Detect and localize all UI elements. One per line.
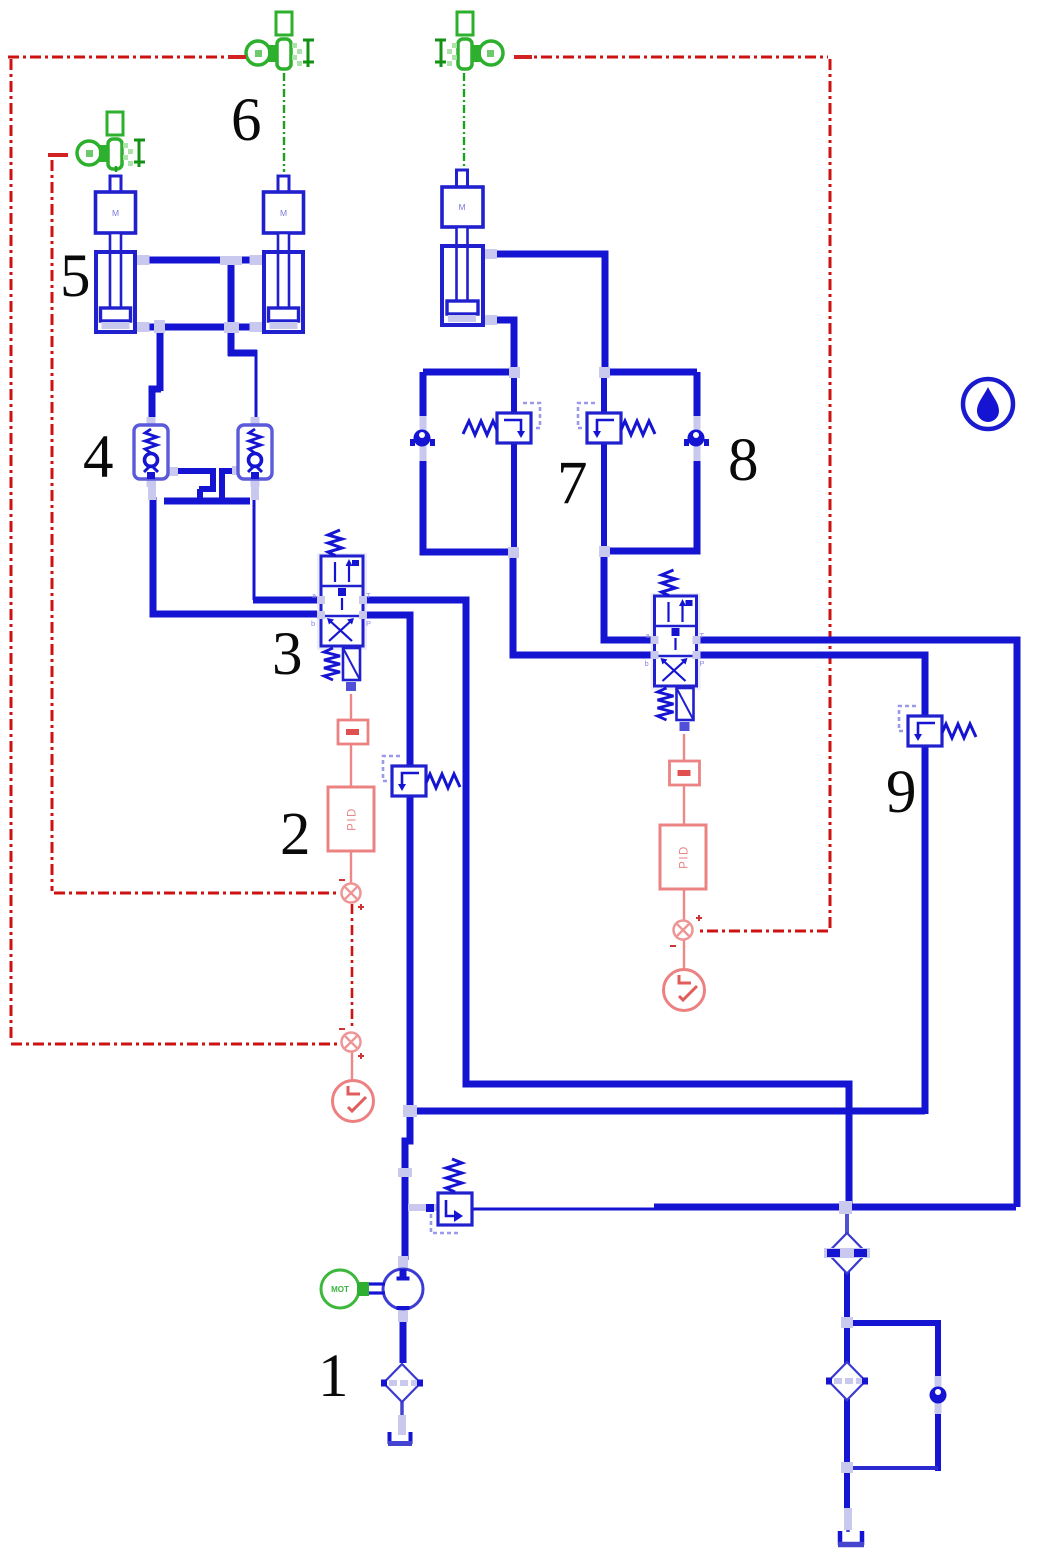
wire: branch to check valve column [847,1323,938,1377]
wire: valve 3 T-port to right column [367,600,849,1209]
wire: cylinders 5a-5b top interconnect [138,257,262,264]
wire: cylinder 5c piston-side to loop7 [483,320,514,372]
svg-text:4: 4 [83,424,114,491]
wire: cooler branch down [845,1210,849,1236]
svg-text:P: P [366,619,371,628]
check valve in loop 8 [684,416,709,461]
hydraulic jack: cylinder 5a [96,176,150,332]
wire: check valve cross link upper [175,471,216,500]
mechanical source: left (for cylinder 5a) [77,112,145,169]
wire: left check valve bottom to valve 3 b-port [153,497,317,614]
wire: vertical drop from top interconnect [228,260,235,356]
wire: filter to tank (light) [400,1402,404,1418]
red signal dash-dot net: feedback loop right [519,57,830,931]
relief valve B (near pump, spring on top) [426,1159,472,1233]
pressure gauge 2 [664,970,705,1011]
wire: relief B output line (thin) [473,1208,658,1211]
wire: check valve column down [935,1413,941,1471]
red solid: valve3 pilot to gain1 [350,694,352,721]
PID block 1 [328,787,374,851]
cooler [824,1233,870,1274]
wire: valve B P-port to relief 9 column [697,655,925,717]
red stub: left source [48,153,68,157]
wire: jog to right check valve [228,350,257,357]
relief valve A (pressure line, spring right) [383,756,460,796]
red stub: source 6 [228,55,246,59]
wire: relief 9 column down [922,745,929,1114]
svg-text:b: b [645,659,649,668]
red signal dash-dot net: feedback loop left outer [8,57,338,1044]
svg-text:PID: PID [347,807,359,831]
wire: pressure line below relief A [405,795,410,1260]
svg-text:5: 5 [60,243,91,310]
junction mark: return tee [839,1201,852,1214]
junction mark: loop7 bottom tee [508,547,519,558]
fluid properties icon [963,379,1013,429]
wire: valve B T-port right column [697,640,1017,1207]
gain block 1 [338,720,368,744]
wire: cooler to filter branch [844,1272,850,1364]
red signal dash-dot: junction1 to junction2 [351,904,354,1030]
green mechanical dash-dot: right source to cylinder 5c [463,73,465,166]
wire: return manifold to cooler branch [654,1204,1016,1211]
wire: loop8 bottom to valve B a-port [604,548,656,640]
red solid: PID1 to junction1 [350,851,352,884]
red stub: right source [514,55,532,59]
svg-text:T: T [700,631,705,640]
svg-text:MOT: MOT [331,1285,349,1294]
wire: loop7 ring [423,372,514,552]
red solid: gain2 to PID2 [683,786,685,826]
wire: thin drop to right check valve [255,350,258,423]
svg-text:T: T [366,591,371,600]
summing junction 3 [670,915,702,946]
pilot check valve 4b (right) [238,417,272,487]
summing junction 2 [339,1029,364,1059]
wire: loop8 relief column [601,372,607,551]
svg-text:b: b [311,619,315,628]
wire: right check drop to valve 3 a-port [253,597,317,604]
wire: cylinder 5c rod-side to loop8 [483,254,605,372]
wire: loop7 relief column [511,372,517,552]
svg-text:2: 2 [280,801,311,868]
junction mark: pump tee [403,1105,417,1117]
wire: check valve cross link lower [219,469,239,500]
junction mark: cooler branch tee [841,1317,853,1328]
wire: filter2 to rejoin [844,1399,850,1512]
wire: check valves bottom bus [164,498,250,505]
wire: pump pressure cross line [410,1108,925,1115]
electric motor MOT [321,1270,385,1308]
green stub: left source to rod [115,166,117,176]
junction mark: rejoin tee [841,1462,853,1473]
wire: valve 3 P-port down to pump [367,615,410,766]
wire: loop7 bottom to valve B b-port [513,549,656,655]
pump [383,1256,423,1322]
mechanical source: top right (mirrored) [435,12,503,69]
green mechanical dash-dot: source6 to cylinder 5b [283,73,285,172]
red solid: valveB pilot to gain2 [683,734,685,762]
svg-text:8: 8 [728,427,759,494]
summing junction 1 [339,880,364,910]
return filter [826,1362,868,1400]
svg-text:PID: PID [679,845,691,869]
svg-text:6: 6 [231,87,262,154]
svg-text:M: M [458,202,465,212]
red solid: junction2 to gauge1 [351,1051,353,1083]
wire: cylinders 5a-5b bottom interconnect [138,324,262,331]
junction mark: check R lower stub [251,478,259,500]
svg-text:M: M [112,208,119,218]
svg-text:3: 3 [272,621,303,688]
wire: relief B inlet (light) [408,1204,438,1211]
svg-text:1: 1 [318,1343,349,1410]
junction mark: cross-wire left end [166,467,178,476]
wire: drop from bottom interconnect [157,327,164,391]
red solid: junction3 to gauge2 [683,940,685,970]
tank 2 [838,1531,864,1545]
junction mark: bottom interconnect cross [224,322,239,333]
relief valve 9 (spring right) [899,706,976,746]
wire: right check valve bottom drop (thin) [253,500,256,600]
tank 1 [388,1432,412,1444]
junction mark: cross-wire right end [232,466,243,475]
junction mark: check L lower stub [148,478,156,500]
directional valve (right circuit) [645,570,705,731]
return check valve [930,1376,947,1414]
junction mark: relief B tap [398,1168,412,1177]
svg-text:9: 9 [886,759,917,826]
relief valve 7 (left loop, spring left) [463,403,540,443]
suction filter [381,1364,423,1402]
hydraulic jack: cylinder 5b [250,176,304,332]
pressure gauge 1 [333,1081,374,1122]
wire: pump to filter [400,1322,407,1363]
hydraulic jack: cylinder 5c [442,170,497,325]
red signal dash-dot net: feedback loop left inner [52,160,336,893]
directional valve 3 [311,530,371,691]
svg-text:7: 7 [557,450,588,517]
check valve in loop 7 [410,416,435,461]
junction mark: top interconnect tee [220,256,242,265]
PID block 2 [660,825,706,889]
red solid: gain1 to PID1 [350,745,352,788]
wire: jog to left check valve [152,389,161,424]
wire: rejoin bus [847,1466,938,1470]
relief valve 7b (right loop, spring right) [578,403,655,443]
svg-text:M: M [280,208,287,218]
red solid: PID2 to junction3 [683,889,685,921]
junction mark: loop8 bottom tee [599,546,610,557]
svg-text:P: P [700,659,705,668]
junction mark: left drop [154,320,165,333]
mechanical source: 6 (top centre) [246,12,314,69]
junction mark: loop7 relief tee [509,367,520,378]
gain block 2 [670,761,700,785]
junction mark: loop8 relief tee [599,367,610,378]
wire: to tank2 (light) [846,1510,850,1532]
pilot check valve 4a (left) [134,417,168,487]
wire: loop8 ring [604,372,697,551]
